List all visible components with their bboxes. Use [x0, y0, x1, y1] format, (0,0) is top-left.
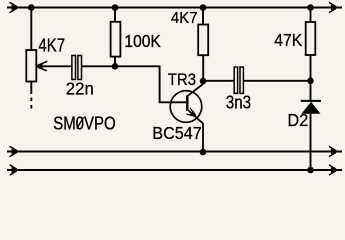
svg-text:3n3: 3n3 — [226, 92, 251, 113]
svg-text:47K: 47K — [274, 31, 302, 50]
svg-text:4K7: 4K7 — [38, 35, 65, 56]
svg-text:22n: 22n — [66, 78, 94, 98]
svg-text:4K7: 4K7 — [171, 10, 198, 27]
svg-text:100K: 100K — [124, 32, 160, 51]
svg-text:TR3: TR3 — [168, 71, 196, 89]
svg-text:D2: D2 — [288, 111, 309, 131]
svg-text:BC547: BC547 — [152, 123, 202, 143]
svg-text:SM0VPO: SM0VPO — [53, 113, 115, 134]
